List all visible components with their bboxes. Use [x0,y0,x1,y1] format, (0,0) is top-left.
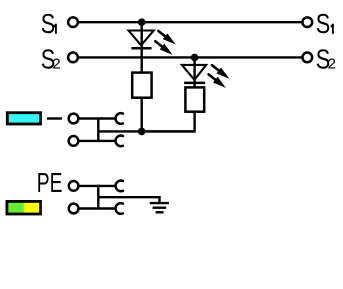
wire from S1 node down to LED1 [140,22,142,44]
terminal circle bottom (cyan row) [69,136,79,146]
dash to terminal [47,117,62,119]
terminal circle S2 left [68,53,78,63]
svg-text:PE: PE [37,169,63,199]
wire LED2 to resistor R2 [193,80,195,88]
stub wire to top contact [98,117,116,119]
LED D2 cathode bar [184,82,205,85]
terminal circle top (cyan row) [69,114,79,124]
terminal circle S2 right [302,53,312,63]
LED D2 triangle [182,65,206,80]
middle wire of disconnect terminal [98,130,194,132]
wire circle top to bar [79,117,98,119]
stub wire to PE top contact [98,185,116,187]
socket contact arc PE bottom [116,203,123,214]
LED D1 cathode bar [131,47,151,50]
node junction dot on S1 line [138,18,146,26]
vertical bar (PE terminal) [97,185,99,210]
wire S2 horizontal [79,56,303,58]
LED D1 triangle [129,31,154,46]
earth ground bar 3 [156,211,164,213]
middle wire PE to earth [98,197,159,203]
wire resistor R1 down to middle node [140,98,142,132]
LED D1 light arrow 2 [153,38,175,57]
node junction dot on S2 line [191,54,199,62]
wire resistor R2 down and left to middle node [142,112,195,132]
resistor R2 [185,87,204,111]
svg-text:2: 2 [328,55,336,72]
wire PE circle top to bar [79,185,98,187]
socket contact arc PE top [116,181,123,192]
terminal circle S1 right [302,17,312,27]
LED D2 light arrow 1 [210,62,232,81]
svg-text:S: S [316,10,330,40]
earth ground bar 1 [150,202,169,204]
vertical bar (cyan terminal) [97,117,99,142]
wire PE circle bottom to bar [79,207,98,209]
terminal circle PE top [69,181,79,191]
stub wire to bottom contact [98,140,116,142]
wire S1 horizontal [79,21,303,23]
wire LED1 to resistor R1 [140,45,142,72]
stub wire to PE bottom contact [98,207,116,209]
wire circle bottom to bar [79,140,98,142]
socket contact arc bottom [116,136,123,147]
terminal circle PE bottom [69,204,79,214]
svg-text:S: S [41,10,55,40]
node junction dot middle [138,128,146,136]
LED D2 light arrow 2 [206,71,228,90]
cyan marker rectangle [7,113,40,124]
wire from S2 node down to LED2 [193,57,195,79]
green-yellow PE marker rectangle [7,201,41,214]
socket contact arc top [116,113,123,124]
svg-text:2: 2 [52,55,60,72]
earth ground bar 2 [153,206,167,208]
resistor R1 [132,73,151,98]
terminal circle S1 left [68,17,78,27]
LED D1 light arrow 1 [156,28,178,47]
